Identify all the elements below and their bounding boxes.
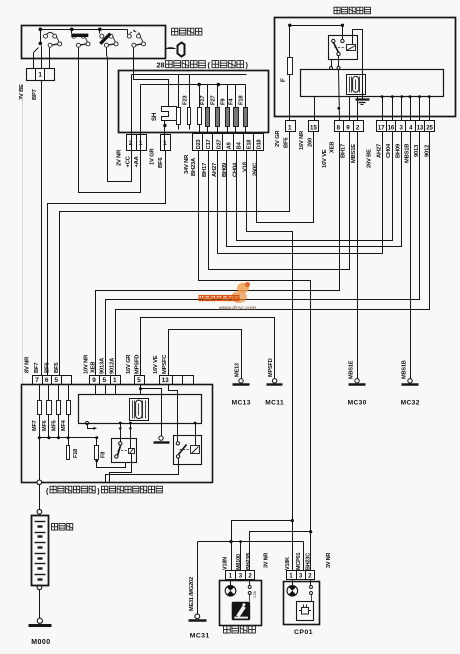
fuse group left (F23 bank) — [177, 108, 181, 125]
junction smart bus left — [288, 24, 291, 27]
svg-text:9013: 9013 — [414, 144, 420, 157]
svg-text:15: 15 — [310, 124, 317, 131]
svg-text:V18N: V18N — [223, 557, 229, 570]
fuse MF7 — [39, 385, 41, 401]
svg-text:260C: 260C — [252, 162, 258, 176]
wire fuse F9 to pin — [227, 127, 229, 134]
fuse MF6 — [48, 385, 50, 401]
panel pin strip 7 6 5 — [33, 376, 72, 385]
panel pin 13 strip — [160, 376, 194, 385]
wire bus3 drop to fuse at 227.7 — [227, 85, 229, 108]
wire CH04 B4 to smart pin 16 — [237, 132, 393, 241]
svg-text:5: 5 — [137, 377, 141, 384]
wire 9012 smart pin 25 to panel pin 1 — [116, 132, 430, 376]
fuse F18 — [244, 108, 248, 127]
wire S3 +CC run — [107, 48, 132, 182]
battery terminal top — [37, 509, 42, 514]
svg-text:CP01: CP01 — [294, 629, 313, 636]
svg-text:16V NR: 16V NR — [299, 130, 305, 150]
wire S2 +AA run — [79, 48, 141, 193]
watermark text — [199, 296, 204, 301]
wire ECU to right pin at 392.3 — [392, 97, 394, 121]
fuse F4 — [234, 108, 239, 127]
svg-text:F23: F23 — [183, 95, 189, 105]
wire BP7 ignition to panel pin 7 — [41, 81, 43, 376]
wire bus1 drop to fuse b — [189, 75, 191, 108]
svg-text:BP7: BP7 — [32, 89, 38, 100]
svg-text:MF6: MF6 — [42, 420, 48, 431]
wire BH23B branch to lighter pin 2 — [250, 532, 311, 571]
svg-text:C2B: C2B — [253, 590, 257, 598]
svg-text:F4: F4 — [229, 98, 235, 105]
label smart control box — [334, 7, 340, 14]
svg-text:MC30: MC30 — [348, 400, 367, 407]
svg-text:1: 1 — [139, 140, 143, 147]
ignition switch contact S1 — [44, 32, 62, 47]
svg-text:MF4: MF4 — [61, 419, 67, 431]
svg-text:3V NR: 3V NR — [326, 553, 332, 568]
ignition switch box — [22, 26, 166, 59]
svg-text:9013A: 9013A — [99, 357, 105, 374]
wire bus3 drop to fuse at 235.9 — [235, 85, 237, 108]
junction ignition bus S2 — [70, 28, 74, 32]
wire panel pin 5 (MPSFD) to ECU with ground branch — [140, 385, 142, 395]
label ignition switch (dian huo kai guan) — [172, 28, 178, 35]
ground in smart box — [356, 98, 370, 100]
svg-text:3V BE: 3V BE — [19, 84, 25, 100]
cabin fuse box body — [119, 71, 269, 133]
svg-text:8V NR: 8V NR — [24, 356, 30, 373]
wire ECU to relay R1 contact with arrow — [120, 424, 122, 442]
wire BH09 A9 to smart pin 3 — [227, 132, 402, 247]
wire bus3 drop to fuse at 207.4 — [207, 85, 209, 108]
ground MC30 — [355, 379, 359, 383]
junction smart bus relay — [341, 24, 344, 27]
wire ECU to right pin at 410 — [410, 97, 412, 121]
svg-text:MPSFD: MPSFD — [134, 355, 140, 374]
connector symbol in panel ECU — [130, 399, 149, 421]
wire ME31 to ground MC31 — [197, 542, 199, 614]
wire bus to S4 — [127, 30, 129, 35]
wire MBS1E smart pin 2 to ground MC30 — [357, 132, 359, 379]
wire battery feed from MF7 — [39, 438, 41, 481]
wire relay R1 coil return — [110, 454, 132, 483]
CP01 pin strip 1 3 2 — [287, 571, 315, 580]
wire V18 continue to CP01 pin 1 — [292, 521, 294, 571]
wire relay R2 output — [106, 459, 179, 483]
wire BH17 C17 to smart pin 9 — [209, 132, 350, 270]
svg-text:1: 1 — [38, 72, 42, 79]
svg-text:+AA: +AA — [134, 155, 140, 167]
ignition bus wire — [41, 29, 128, 31]
svg-text:5: 5 — [103, 377, 107, 384]
wire S4 to cabin fusebox SH bus — [134, 48, 169, 107]
smart top bus — [290, 25, 343, 27]
svg-text:BH23B: BH23B — [246, 553, 252, 570]
svg-text:BF6: BF6 — [45, 362, 51, 373]
svg-text:BH23A: BH23A — [191, 157, 197, 176]
ECU block in smart box — [301, 70, 444, 97]
svg-text:CH04: CH04 — [386, 143, 392, 158]
fuse F9 — [226, 108, 230, 127]
fuse MF5 — [58, 385, 60, 401]
svg-text:MC13: MC13 — [232, 400, 251, 407]
wire ECU to right pin at 429.3 — [429, 97, 431, 121]
cabin pin 1b — [161, 135, 171, 151]
wire XEB smart pin 8 to panel pin 9 — [96, 132, 340, 376]
svg-text:MPSFD: MPSFD — [268, 358, 274, 377]
cabin pin strip 2/1 — [127, 135, 147, 151]
svg-text:SH: SH — [151, 112, 158, 121]
svg-text:MC11: MC11 — [265, 400, 284, 407]
svg-text:BF5: BF5 — [54, 362, 60, 373]
fuse F23 bank bottom stubs — [178, 125, 180, 130]
svg-text:MBS1E: MBS1E — [349, 360, 355, 379]
svg-text:+CC: +CC — [126, 155, 132, 167]
svg-text:M8100: M8100 — [236, 554, 242, 570]
wire panel pin 5b to ECU — [105, 385, 107, 395]
ignition switch contact S2 — [71, 34, 90, 48]
panel ECU block — [79, 395, 202, 424]
wire ECU to right pin at 401.8 — [401, 97, 403, 121]
svg-text:25: 25 — [426, 125, 433, 131]
wire fuse F27 to pin — [217, 127, 219, 134]
svg-text:16: 16 — [388, 125, 395, 131]
relay contact terminals on ECU — [330, 67, 333, 70]
svg-text:1V GR: 1V GR — [150, 148, 156, 165]
wire node to ground ME31 and CP01 pin 3 — [198, 541, 304, 543]
cabin bus3 — [141, 84, 246, 86]
svg-text:16V VE: 16V VE — [322, 149, 328, 168]
svg-text:BH23C: BH23C — [305, 553, 311, 570]
junction bus3 D23 — [197, 83, 201, 87]
wire 260C D18 to smart pin 15 — [257, 132, 314, 223]
svg-text:F17: F17 — [200, 96, 206, 105]
ignition key symbol — [166, 48, 176, 50]
svg-text:D23: D23 — [196, 139, 202, 149]
ground inside panel — [159, 436, 163, 440]
label front lighter — [224, 626, 231, 633]
relay K1 in smart box — [342, 26, 344, 40]
svg-text:MF5: MF5 — [51, 420, 57, 431]
wire S1 to connector left cell — [33, 53, 35, 69]
svg-text:1: 1 — [163, 140, 167, 147]
svg-text:M000: M000 — [31, 639, 51, 646]
svg-text:9: 9 — [92, 377, 96, 384]
relay R2 in panel — [174, 436, 202, 465]
wire SH to pin 1b — [164, 121, 166, 151]
junction V18N ground branch — [229, 540, 232, 543]
smart box pin 15 — [309, 121, 319, 132]
svg-text:BF6: BF6 — [158, 157, 164, 168]
wire riser pin2 to bus1 — [131, 75, 133, 151]
wire relay coil over-path to ground — [353, 30, 363, 100]
CP01 socket icon — [297, 602, 314, 621]
svg-text:D27: D27 — [216, 139, 222, 149]
engine bay fuse panel body — [22, 385, 213, 483]
svg-text:MC31: MC31 — [190, 633, 210, 640]
svg-text:F: F — [280, 78, 287, 82]
svg-text:1: 1 — [288, 124, 292, 131]
svg-text:BF5: BF5 — [283, 137, 289, 148]
svg-text:www.dzsc.com: www.dzsc.com — [218, 306, 256, 312]
cabin bus1 — [132, 74, 247, 76]
fuse MF4 — [68, 385, 70, 401]
svg-text:CH04: CH04 — [232, 162, 238, 177]
svg-text:ME13: ME13 — [235, 363, 241, 377]
connector symbol in smart ECU — [347, 75, 366, 95]
wire MBS1B smart pin 4 to ground MC32 — [410, 132, 412, 379]
svg-text:28: 28 — [157, 60, 165, 69]
wire ECU to relay R1 coil with arrow — [130, 424, 132, 449]
svg-text:9012A: 9012A — [109, 357, 115, 374]
smart box pin 1 — [286, 121, 296, 132]
wire M8100 stub to lighter pin 3 — [240, 542, 242, 571]
CP01 contacts — [310, 580, 312, 586]
svg-text:F18: F18 — [73, 449, 79, 458]
svg-text:F8: F8 — [101, 452, 107, 458]
lighter contacts — [249, 580, 251, 586]
front cigarette lighter box — [220, 581, 262, 626]
svg-text:13: 13 — [417, 125, 424, 131]
svg-text:2V NR: 2V NR — [117, 149, 123, 166]
wire ECU to pin 9 — [349, 97, 351, 121]
ignition switch contact S4 — [127, 30, 145, 47]
wire AH27 D27 to smart pin 17 — [218, 132, 383, 254]
fuse F in smart box — [289, 26, 291, 58]
svg-text:BF7: BF7 — [34, 363, 40, 373]
wire MPSFC panel pin 13 to ground MC13 — [169, 330, 242, 379]
svg-text:F27: F27 — [211, 96, 217, 105]
svg-text:BH09: BH09 — [222, 162, 228, 177]
wire BH23C to CP01 pin 2 — [310, 532, 312, 571]
smart box pins 17 16 3 4 13 25 — [377, 121, 435, 132]
ground MC13 — [239, 379, 243, 383]
wire F8 to relay contact — [97, 460, 126, 468]
junction V18 branch — [291, 519, 294, 522]
junction SH output — [163, 124, 166, 127]
wire MPSFD panel pin 5 to ground MC11 — [141, 318, 275, 379]
wire bus3 drop F23 — [199, 85, 201, 108]
battery terminal bottom — [37, 585, 42, 590]
svg-text:1: 1 — [113, 377, 117, 384]
ground MC11 — [272, 379, 276, 383]
svg-text:F9: F9 — [221, 98, 227, 105]
watermark logo — [231, 282, 250, 303]
wire bus3 drop to fuse at 217.7 — [217, 85, 219, 108]
wire relay output to pin 8 — [339, 70, 340, 121]
ground MC31 — [195, 614, 200, 619]
svg-text:6: 6 — [45, 377, 49, 384]
svg-text:5: 5 — [55, 377, 59, 384]
svg-text:E18: E18 — [247, 140, 253, 149]
svg-text:17: 17 — [378, 125, 385, 131]
svg-text:26V BE: 26V BE — [367, 149, 373, 168]
wire 9013 smart pin 13 to panel pin 5 — [106, 132, 420, 376]
svg-text:MCP01: MCP01 — [296, 553, 302, 570]
wire S1 to connector cell 1 — [41, 46, 43, 69]
wire ECU to relay R2 coil — [195, 424, 197, 446]
wire ECU to right pin at 419.5 — [419, 97, 421, 121]
panel pin 5 (MPSFD) — [135, 376, 145, 385]
wire panel pin 13 to relay R2 — [169, 385, 178, 442]
wire riser pin1 to bus3 — [140, 85, 142, 151]
wire fuse F18 to pin — [245, 127, 247, 134]
fuse F18 panel — [68, 438, 70, 446]
svg-text:MBS1B: MBS1B — [405, 144, 411, 163]
svg-text:XEB: XEB — [90, 362, 96, 373]
scan fold artifact line — [22, 97, 24, 385]
wire ECU to right pin at 382 — [382, 97, 384, 121]
svg-text:XEB: XEB — [330, 142, 336, 153]
svg-text:2V GR: 2V GR — [275, 130, 281, 147]
wire bus3 drop to fuse at 245.6 — [245, 85, 247, 108]
svg-text:MPSFC: MPSFC — [162, 354, 168, 374]
wire BF5 smart pin 1 to panel pin 5 — [60, 132, 290, 376]
junction bus3 D27 — [217, 83, 221, 87]
lighter element icon — [232, 602, 251, 621]
junction ignition bus S3 — [98, 28, 102, 32]
wire panel pin 1 to ECU — [115, 385, 117, 395]
panel bus — [40, 437, 97, 439]
svg-text:2: 2 — [356, 124, 360, 131]
svg-text:V18K: V18K — [285, 557, 291, 570]
wire BF6 cabin to panel pin 6 — [48, 151, 166, 376]
wire fuse F4 to pin — [235, 127, 237, 134]
svg-text:2: 2 — [129, 140, 133, 147]
svg-text:7: 7 — [35, 377, 39, 384]
label battery (xu dian chi) — [52, 524, 58, 531]
wire ECU to pin 15 — [314, 97, 316, 121]
junction ignition bus S1 — [39, 28, 43, 32]
shunt SH outline — [162, 107, 177, 121]
wire V18 E18 to lighter junction — [247, 151, 293, 521]
svg-text:V18: V18 — [242, 161, 248, 172]
svg-text:F18: F18 — [238, 95, 244, 105]
fuse F27 — [216, 108, 220, 127]
svg-text:MC32: MC32 — [401, 400, 420, 407]
wire panel to battery positive — [39, 485, 41, 510]
wire BH23A D23 to lighter branch — [199, 151, 311, 532]
svg-text:ME31 /MG202: ME31 /MG202 — [189, 577, 195, 611]
svg-text:BH17: BH17 — [341, 144, 347, 158]
smart box pins 8 9 2 — [335, 121, 364, 132]
svg-text:C17: C17 — [206, 139, 212, 149]
panel pin strip 9 5 1 — [90, 376, 121, 385]
svg-text:16V VE: 16V VE — [153, 355, 159, 374]
svg-text:13: 13 — [162, 377, 169, 384]
accessory socket CP01 box — [284, 582, 320, 625]
svg-text:D18: D18 — [257, 139, 263, 149]
junction BH23 branch — [309, 530, 312, 533]
wire bus1 drop to fuse a — [178, 75, 180, 108]
fuse F8 panel — [96, 438, 98, 446]
svg-text:34V NR: 34V NR — [184, 154, 190, 174]
svg-text:BH17: BH17 — [202, 163, 208, 177]
svg-text:3V NR: 3V NR — [264, 553, 270, 568]
smart control box body — [275, 18, 456, 117]
fuse F17 — [206, 108, 210, 127]
svg-text:B4: B4 — [237, 141, 243, 149]
battery box — [32, 516, 49, 586]
svg-text:MBS1E: MBS1E — [351, 144, 357, 163]
svg-text:AH27: AH27 — [377, 144, 383, 158]
wire S1 to connector right cell — [49, 48, 51, 69]
wire V18N branch to lighter pin 1 — [232, 521, 293, 571]
svg-text:16V GR: 16V GR — [126, 354, 132, 374]
lighter lamp symbol — [230, 580, 232, 586]
svg-text:9: 9 — [346, 124, 350, 131]
relay R1 in panel — [112, 439, 137, 463]
svg-text:MF7: MF7 — [32, 420, 38, 431]
ground MC32 — [408, 379, 412, 383]
svg-text:BH09: BH09 — [396, 143, 402, 158]
wire battery to ground M000 — [39, 590, 41, 619]
wire ECU to pin 2 — [357, 97, 359, 121]
svg-text:260: 260 — [308, 138, 314, 147]
svg-text:A9: A9 — [226, 142, 232, 149]
svg-text:8: 8 — [337, 124, 341, 131]
wire panel pin 9 to ECU — [95, 385, 97, 395]
lighter pin strip 1 3 2 — [226, 571, 255, 580]
ground M000 — [37, 618, 42, 623]
wire fuse F17 to pin — [207, 127, 209, 134]
svg-text:MBS1B: MBS1B — [402, 360, 408, 379]
ignition switch contact S3 — [100, 34, 118, 48]
connector X1 under ignition switch — [27, 69, 55, 81]
cabin pin strip D23-D18 — [193, 134, 264, 151]
svg-text:10V NR: 10V NR — [83, 354, 89, 374]
wire ECU arrow to F8 node — [85, 421, 88, 424]
CP01 lamp symbol — [292, 580, 294, 586]
